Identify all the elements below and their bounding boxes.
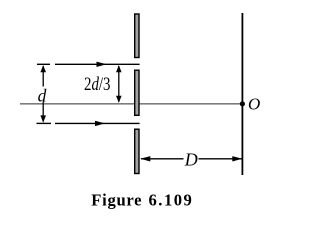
point O dot bbox=[240, 101, 245, 106]
2d/3 dimension arrow shaft bbox=[118, 66, 120, 102]
svg-text:d: d bbox=[38, 85, 47, 105]
upper ray arrowhead bbox=[97, 62, 107, 67]
slit plate middle segment bbox=[135, 70, 139, 115]
svg-text:Figure6.109: Figure6.109 bbox=[91, 190, 193, 209]
d bottom tick bbox=[37, 122, 52, 124]
d arrowhead up bbox=[40, 65, 46, 72]
d dimension arrow shaft bbox=[42, 66, 44, 122]
D dimension arrow left segment bbox=[141, 158, 184, 160]
slit plate upper segment bbox=[135, 14, 139, 58]
slit plate lower segment bbox=[135, 129, 139, 173]
svg-text:2d/3: 2d/3 bbox=[84, 74, 111, 95]
2d/3 arrowhead down bbox=[116, 96, 122, 103]
screen bbox=[241, 13, 243, 175]
lower ray arrowhead bbox=[95, 121, 105, 126]
lower ray wire bbox=[55, 122, 140, 124]
d arrowhead down bbox=[40, 115, 46, 122]
D arrowhead right bbox=[232, 156, 242, 161]
D dimension arrow right segment bbox=[199, 158, 242, 160]
white patch behind d label bbox=[37, 87, 49, 102]
svg-text:O: O bbox=[248, 95, 260, 114]
d top tick bbox=[37, 63, 50, 65]
optical axis bbox=[20, 103, 242, 105]
upper ray wire bbox=[55, 63, 140, 65]
2d/3 arrowhead up bbox=[116, 65, 122, 72]
svg-text:D: D bbox=[184, 149, 198, 169]
D arrowhead left bbox=[140, 156, 150, 161]
